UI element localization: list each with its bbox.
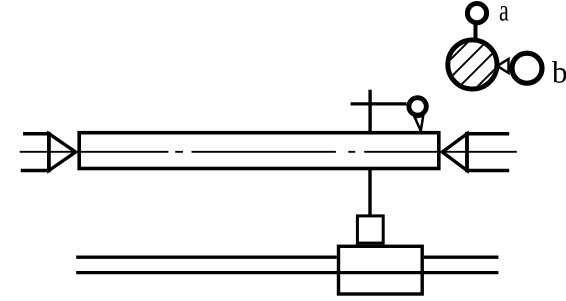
dial gauge circle	[409, 98, 426, 115]
left lathe center top arm	[23, 132, 49, 136]
dial gauge post	[368, 90, 371, 133]
shaft axis centerline (dash-dot)	[20, 151, 517, 153]
left lathe center vertical bar	[47, 132, 51, 172]
right lathe center bottom arm	[467, 169, 509, 173]
jack base block	[339, 246, 423, 294]
right lathe center top arm	[467, 132, 509, 136]
support rod below shaft	[368, 170, 371, 217]
svg-text:b: b	[552, 55, 566, 90]
guide rail upper left segment	[76, 256, 337, 259]
probe circle b	[512, 53, 542, 83]
svg-text:a: a	[499, 0, 509, 28]
guide rail lower	[76, 271, 498, 274]
right lathe center vertical bar	[465, 132, 469, 172]
dial gauge stylus tip	[415, 116, 423, 131]
right lathe center triangle	[442, 134, 467, 171]
hatch lines	[390, 0, 566, 120]
guide rail upper right segment	[424, 256, 499, 259]
jack top block	[357, 216, 383, 243]
stem to probe a	[474, 24, 478, 41]
probe circle a	[467, 4, 486, 23]
dial gauge crossbar arm	[351, 102, 407, 105]
left lathe center triangle	[49, 134, 76, 171]
section view hatched circle	[448, 40, 497, 89]
contact wedge b	[497, 59, 508, 73]
workpiece shaft body	[79, 133, 439, 169]
left lathe center bottom arm	[21, 169, 49, 173]
